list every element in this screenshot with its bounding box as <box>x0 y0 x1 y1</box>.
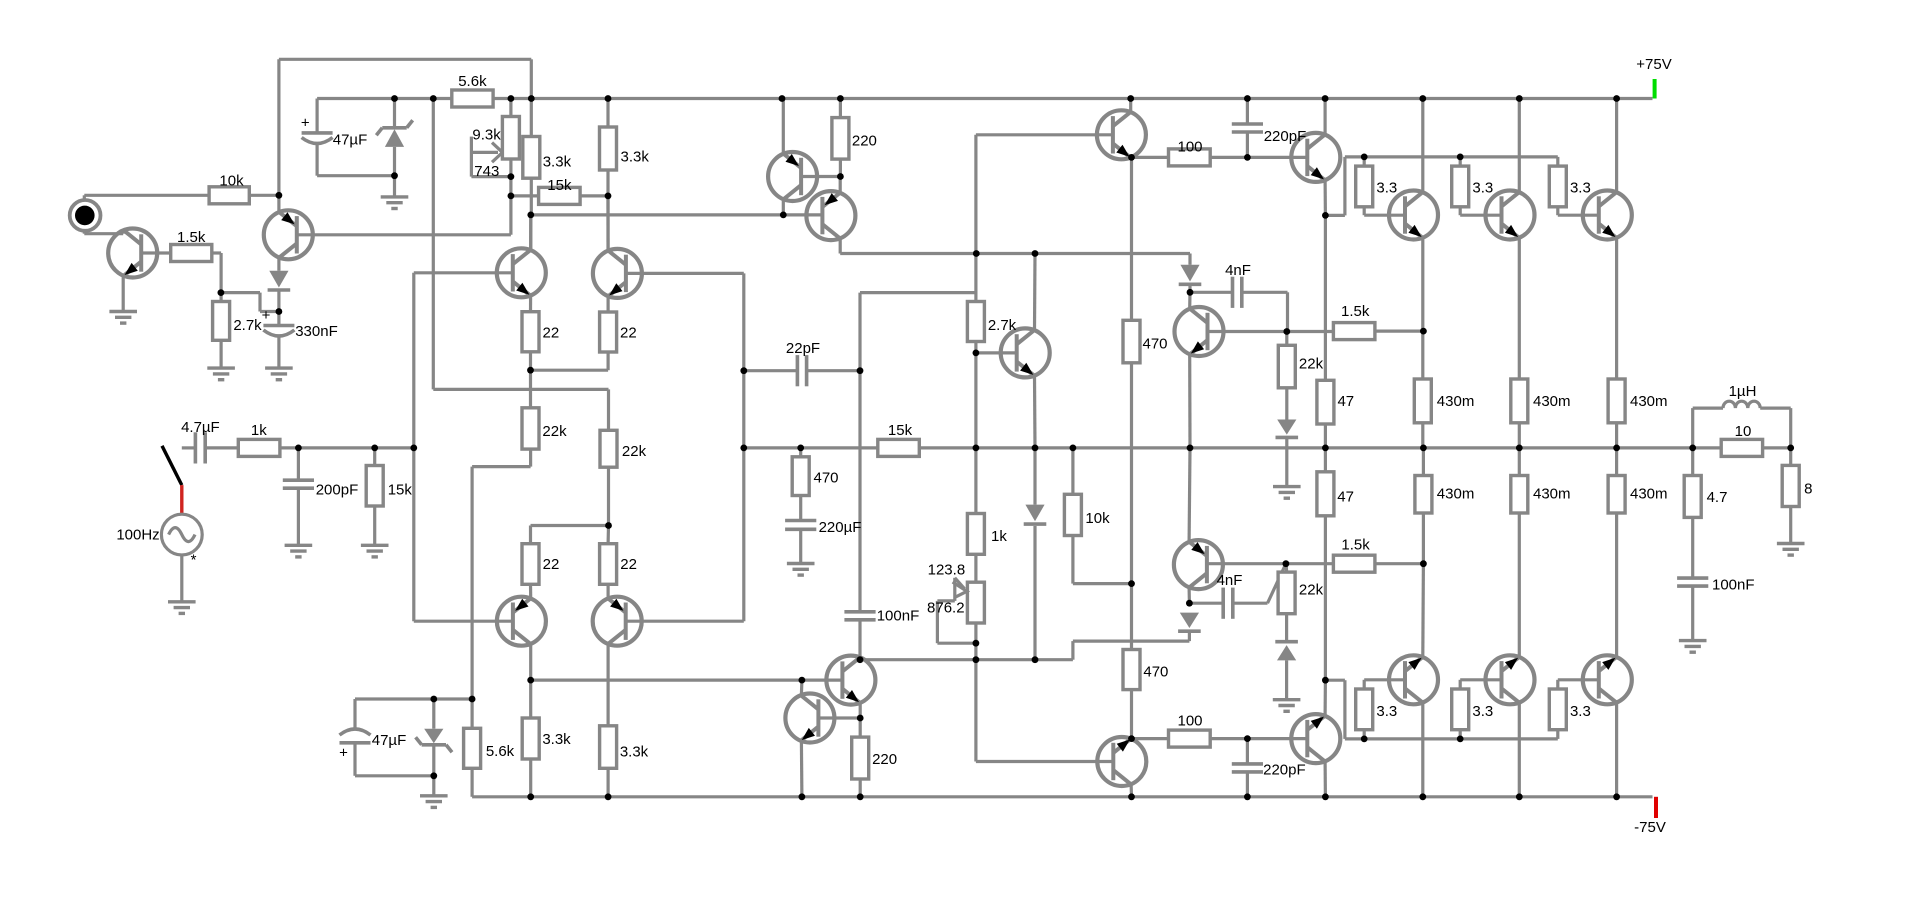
wire 3.3 base resistor 3 leads <box>1556 157 1559 166</box>
resistor 10k <box>209 187 249 204</box>
svg-text:3.3k: 3.3k <box>620 744 649 761</box>
wire 470 rail leads <box>799 448 802 457</box>
svg-text:1.5k: 1.5k <box>177 229 206 246</box>
wire Q7 emitter down <box>1421 238 1424 331</box>
junction at 1519,797 <box>1516 793 1523 800</box>
svg-text:4.7µF: 4.7µF <box>181 419 220 436</box>
wire D2 to Q10 node <box>1188 286 1191 292</box>
wire Q15 collector <box>1033 254 1037 331</box>
resistor 100 bottom <box>1169 730 1211 747</box>
wire Z2 ground stem <box>432 776 435 796</box>
svg-text:47: 47 <box>1337 488 1354 505</box>
wire comp to Q5 base node <box>860 291 976 294</box>
svg-text:4nF: 4nF <box>1225 262 1251 279</box>
wire input riser to Q13 base <box>414 620 513 623</box>
wire Q8 collector <box>529 215 532 250</box>
wire Q3 emitter stub <box>839 177 842 193</box>
junction at 608,98 <box>605 95 612 102</box>
wire +75V rail <box>493 97 1652 100</box>
wire 430m b1 leads <box>1422 448 1425 476</box>
junction at 1247,98 <box>1244 95 1251 102</box>
wire mid rail left <box>744 446 878 449</box>
resistor 430m b1 <box>1415 476 1432 514</box>
ground 330nF <box>265 366 293 369</box>
+75V supply tick <box>1653 79 1657 99</box>
resistor 15k top <box>539 187 581 204</box>
resistor 2.7k VAS <box>967 302 984 342</box>
transistor Q3 pnp <box>806 191 855 240</box>
resistor 22k tail a <box>522 408 539 449</box>
diode D6 <box>1277 645 1296 660</box>
wire pot2 bracket <box>953 578 956 601</box>
junction at 279,195 <box>276 192 283 199</box>
wire 3.3k b1 leads <box>529 680 532 718</box>
resistor 3.3 bottom 1 <box>1356 689 1373 730</box>
wire D3 through rail to ground <box>1285 439 1288 487</box>
svg-text:5.6k: 5.6k <box>458 73 487 90</box>
capacitor 4.7uF <box>194 432 198 463</box>
resistor 5.6k bottom <box>464 728 481 768</box>
wire Q9 collector to rail <box>1615 99 1618 193</box>
junction at 1364,157 <box>1361 154 1368 161</box>
diode D1 <box>269 271 288 288</box>
junction at 531,215 <box>527 212 534 219</box>
junction at 608,196 <box>605 193 612 200</box>
svg-text:100: 100 <box>1177 139 1202 156</box>
wire input riser to Q11 base <box>412 273 415 621</box>
svg-text:470: 470 <box>813 470 838 487</box>
wire 2.7k VAS leads <box>974 254 977 302</box>
resistor 22k tail b <box>600 430 617 467</box>
svg-text:3.3: 3.3 <box>1472 703 1493 720</box>
junction at 1131,98 <box>1127 95 1134 102</box>
ground Z2 <box>420 794 448 797</box>
ground below D6 <box>1273 698 1301 701</box>
wire 220pF leads <box>1246 99 1249 125</box>
junction at 860,718 <box>857 715 864 722</box>
junction at 221,293 <box>218 289 225 296</box>
junction at 1617,98 <box>1613 95 1620 102</box>
wire 220 top leads <box>839 99 842 118</box>
wire input line <box>182 446 196 449</box>
junction at 840,176 <box>837 173 844 180</box>
resistor 220 top <box>832 118 849 160</box>
wire Q1 emitter to ground <box>122 276 125 312</box>
junction at 434,776 <box>430 772 437 779</box>
junction at 1519,98 <box>1516 95 1523 102</box>
wire Q7 collector to rail <box>1421 99 1424 193</box>
resistor 3.3 bottom 2 <box>1452 689 1469 730</box>
wire 3.3 lower resistor 2 leads <box>1459 730 1462 739</box>
resistor 430m 2 <box>1511 379 1528 423</box>
junction at 434,699 <box>430 696 437 703</box>
resistor 470 top <box>1123 320 1140 363</box>
junction at 1460,157 <box>1457 154 1464 161</box>
capacitor 47uF top <box>302 131 333 135</box>
svg-text:10: 10 <box>1735 423 1752 440</box>
resistor 3.3k bottom 2 <box>600 726 617 769</box>
svg-text:1k: 1k <box>251 422 267 439</box>
svg-text:*: * <box>191 552 197 569</box>
diode D3 <box>1277 420 1296 435</box>
junction at 298,448 <box>295 445 302 452</box>
svg-text:330nF: 330nF <box>295 323 338 340</box>
diode D4 <box>1025 505 1044 522</box>
resistor 1.5k lower <box>1333 555 1375 572</box>
wire Q11 collector <box>529 215 532 250</box>
wire 47uF block top <box>317 97 452 100</box>
transistor Q19 output npn lower <box>1583 655 1632 704</box>
junction at 783,215 <box>780 212 787 219</box>
junction at 1423,564 <box>1420 560 1427 567</box>
svg-text:430m: 430m <box>1533 486 1571 503</box>
junction at 860,660 <box>857 656 864 663</box>
junction at 744,371 <box>740 367 747 374</box>
svg-text:220µF: 220µF <box>819 519 862 536</box>
capacitor 100nF zobel <box>1677 576 1708 580</box>
pot wiper arrow <box>471 151 498 154</box>
junction at 1460,739 <box>1457 736 1464 743</box>
wire Q23 base <box>1247 737 1307 740</box>
wire 22k lower leads <box>1285 564 1289 572</box>
svg-text:1.5k: 1.5k <box>1341 537 1370 554</box>
junction at 1423,331 <box>1420 328 1427 335</box>
capacitor 330nF polarized <box>263 324 294 328</box>
wire 1.5k to 2.7k node <box>212 251 221 254</box>
svg-text:1.5k: 1.5k <box>1341 303 1370 320</box>
wire Q22 base riser <box>974 660 977 762</box>
junction at 1073,448 <box>1070 445 1077 452</box>
wire Q6 emitter column <box>1324 215 1327 380</box>
junction at 1035,660 <box>1032 656 1039 663</box>
junction at 1035,254 <box>1032 250 1039 257</box>
capacitor 22pF <box>796 355 800 386</box>
wire Q1 base to 1.5k <box>141 251 171 254</box>
transistor Q15 npn <box>1001 328 1050 377</box>
potentiometer 123.8/876.2 <box>967 582 984 623</box>
resistor 430m b3 <box>1608 476 1625 514</box>
junction at 531,98 <box>528 95 535 102</box>
svg-text:1µH: 1µH <box>1729 383 1757 400</box>
wire 47 lower leads <box>1324 448 1327 472</box>
junction at 1132,584 <box>1128 580 1135 587</box>
wire Q15 base node down <box>974 353 977 514</box>
transistor Q7 output npn <box>1389 191 1438 240</box>
wire Q18 collector to -rail <box>1518 703 1521 797</box>
junction at 1423,448 <box>1420 445 1427 452</box>
junction at 1035,448 <box>1032 445 1039 452</box>
resistor 430m 3 <box>1608 379 1625 423</box>
wire 10k to node A <box>249 194 279 197</box>
svg-text:1k: 1k <box>991 528 1007 545</box>
resistor 3.3k right <box>600 127 617 170</box>
wire Q14 collector <box>606 644 609 726</box>
junction at 1791,448 <box>1787 445 1794 452</box>
wire VAS node to D2 <box>1188 254 1191 265</box>
svg-text:10k: 10k <box>219 173 244 190</box>
junction at 1617,797 <box>1613 793 1620 800</box>
wire top bypass <box>279 58 531 61</box>
svg-text:4.7: 4.7 <box>1707 489 1728 506</box>
wire Q16e jog to lower 3.3 row <box>1325 679 1345 682</box>
capacitor 220pF top <box>1232 122 1263 126</box>
wire 430m b2 leads <box>1518 448 1521 476</box>
resistor 3.3 top 2 <box>1452 166 1469 207</box>
svg-text:470: 470 <box>1142 336 1167 353</box>
svg-text:+: + <box>301 115 310 132</box>
wire 2.7k node jog to 330nF <box>221 291 260 294</box>
wire Q9 collector lead <box>606 196 609 251</box>
wire 22k tail a bottom jog <box>529 449 532 467</box>
svg-text:430m: 430m <box>1437 486 1475 503</box>
svg-text:+75V: +75V <box>1636 56 1671 73</box>
ground zobel <box>1679 639 1707 642</box>
wire Q2 collector to D1 <box>277 258 280 271</box>
svg-text:123.8: 123.8 <box>928 561 966 578</box>
junction at 1325,680 <box>1322 677 1329 684</box>
wire 15k input leads <box>373 448 376 466</box>
capacitor 220pF bottom <box>1232 762 1263 766</box>
ground 220uF <box>787 562 815 565</box>
svg-text:220pF: 220pF <box>1264 128 1307 145</box>
wire D6 to ground <box>1285 660 1288 699</box>
transistor Q18 output npn lower <box>1486 655 1535 704</box>
wire 47uF block bottom <box>317 174 394 177</box>
wire zener Z2 leads <box>432 699 435 729</box>
svg-text:876.2: 876.2 <box>927 599 965 616</box>
wire bottom block lower <box>355 774 434 777</box>
capacitor 200pF <box>283 478 314 482</box>
wire Q11 emitter <box>529 296 532 312</box>
capacitor 100nF comp <box>844 610 875 614</box>
junction at 782,98 <box>779 95 786 102</box>
junction at 976,643 <box>973 640 980 647</box>
resistor 15k input <box>366 466 383 507</box>
wire Q20 emitter to -rail <box>800 741 804 797</box>
wire mid rail right <box>919 446 1790 449</box>
ground 2.7k <box>207 366 235 369</box>
junction at 976,448 <box>973 445 980 452</box>
svg-text:743: 743 <box>474 163 499 180</box>
wire 47uF2 leads <box>353 699 356 729</box>
svg-text:100nF: 100nF <box>877 608 920 625</box>
svg-text:4nF: 4nF <box>1217 572 1243 589</box>
resistor 22 a <box>522 312 539 352</box>
svg-text:470: 470 <box>1143 664 1168 681</box>
wire Q13 collector <box>529 644 532 680</box>
svg-text:-75V: -75V <box>1634 819 1666 836</box>
resistor 3.3k bottom 1 <box>522 718 539 759</box>
svg-text:22k: 22k <box>1299 356 1324 373</box>
wire Q17 collector to -rail <box>1421 703 1424 797</box>
wire 1k to pot2 <box>974 554 977 582</box>
transistor Q13 pnp diff <box>497 597 546 646</box>
wire jack to 10k <box>84 194 209 197</box>
wire 2.7k leads <box>220 293 223 302</box>
resistor 22k upper <box>1278 345 1295 388</box>
junction at 511,196 <box>508 193 515 200</box>
resistor 3.3 top 1 <box>1356 166 1373 207</box>
wire 10k jog to 470 column <box>1073 582 1132 585</box>
junction at 1247,739 <box>1244 735 1251 742</box>
resistor 4.7 zobel <box>1684 476 1701 518</box>
wire pot top lead <box>509 99 512 117</box>
junction at 511,177 <box>508 173 515 180</box>
junction at 1693,448 <box>1689 445 1696 452</box>
junction at 1247,157 <box>1244 154 1251 161</box>
svg-text:3.3: 3.3 <box>1570 180 1591 197</box>
wire 330nF bottom to ground <box>277 336 280 368</box>
junction at 279,312 <box>276 308 283 315</box>
wire Q23 emitter up <box>1323 680 1327 716</box>
junction at 860,371 <box>857 367 864 374</box>
transistor Q1 input <box>108 229 157 278</box>
svg-text:3.3: 3.3 <box>1570 703 1591 720</box>
wire 5.6k bottom leads <box>471 699 474 728</box>
wire Q5 collector to rail <box>1129 99 1132 112</box>
junction at 608,526 <box>605 522 612 529</box>
wire 1.5k to 430m node <box>1375 330 1424 333</box>
svg-text:47µF: 47µF <box>333 132 368 149</box>
junction at 1190,292 <box>1187 289 1194 296</box>
svg-text:15k: 15k <box>888 422 913 439</box>
junction at 976,254 <box>973 250 980 257</box>
wire 3.3 base resistor 1 leads <box>1363 157 1366 166</box>
wire pot2 bottom <box>974 623 977 643</box>
svg-text:5.6k: 5.6k <box>486 743 515 760</box>
wire Q16 base <box>1207 562 1334 565</box>
wire Q14 emitter <box>606 584 609 598</box>
junction at 976,660 <box>973 656 980 663</box>
wire Q21 emitter stub <box>859 703 862 718</box>
resistor 100 top <box>1169 149 1211 166</box>
junction at 802,680 <box>799 677 806 684</box>
wire Q4 emitter to rail <box>782 99 785 154</box>
wire 470 mid column <box>1130 157 1133 320</box>
svg-text:430m: 430m <box>1437 393 1475 410</box>
wire 8 leads <box>1789 448 1792 466</box>
resistor 22 b <box>600 312 617 352</box>
svg-text:9.3k: 9.3k <box>472 126 501 143</box>
junction at 1189,603 <box>1186 600 1193 607</box>
resistor 47 top <box>1317 380 1334 424</box>
svg-text:3.3k: 3.3k <box>543 154 572 171</box>
wire diff tail join <box>531 369 609 372</box>
svg-text:430m: 430m <box>1630 486 1668 503</box>
wire Q14 base <box>626 620 744 623</box>
resistor 5.6k <box>452 90 493 107</box>
junction at 530,370 <box>527 367 534 374</box>
wire Q2 base <box>297 233 511 236</box>
junction at 1325,215 <box>1322 212 1329 219</box>
wire Q8 emitter down <box>1518 238 1521 379</box>
wire 100nF bottom <box>858 620 861 660</box>
wire zener ground stem <box>393 176 396 197</box>
junction at 433,98 <box>430 95 437 102</box>
resistor 22k lower <box>1278 572 1295 614</box>
svg-text:220pF: 220pF <box>1263 762 1306 779</box>
capacitor 4nF bottom <box>1221 588 1225 619</box>
wire Q4 collector down <box>782 199 785 215</box>
junction at 801,448 <box>797 445 804 452</box>
ground 200pF <box>285 544 313 547</box>
wire 470 lower leads <box>1130 584 1133 650</box>
wire zener Z1 leads <box>393 99 396 128</box>
ground load <box>1777 542 1805 545</box>
resistor 8 load <box>1782 465 1799 506</box>
wire 3.3 lower resistor 3 leads <box>1556 730 1559 739</box>
wire 15k leads <box>511 194 539 197</box>
junction at 608,797 <box>605 793 612 800</box>
wire D1 to 330nF node <box>277 291 280 326</box>
-75V supply tick <box>1654 797 1658 818</box>
svg-text:15k: 15k <box>388 482 413 499</box>
junction at 1325,797 <box>1322 793 1329 800</box>
junction at 1364,739 <box>1361 736 1368 743</box>
wire Q2 emitter <box>277 195 280 212</box>
svg-text:47µF: 47µF <box>372 732 407 749</box>
wire Q4 base junction <box>801 175 840 178</box>
svg-text:+: + <box>262 307 271 324</box>
resistor 470 rail <box>792 457 809 496</box>
junction at 1423,98 <box>1419 95 1426 102</box>
resistor 3.3k left <box>523 137 540 179</box>
wire 1.5k lower right <box>1375 562 1424 565</box>
wire 4.7 leads <box>1691 448 1694 476</box>
resistor 430m 1 <box>1414 379 1431 423</box>
resistor 430m b2 <box>1511 476 1528 514</box>
wire Q6 emitter down <box>1323 180 1327 215</box>
svg-text:430m: 430m <box>1630 393 1668 410</box>
svg-text:22k: 22k <box>1299 582 1324 599</box>
svg-text:+: + <box>339 744 348 761</box>
svg-text:2.7k: 2.7k <box>988 317 1017 334</box>
diode D5 <box>1180 613 1199 628</box>
wire Q6 emitter jog to 3.3 row <box>1325 214 1345 217</box>
resistor 1.5k upper <box>1333 323 1375 340</box>
resistor 220 bottom <box>852 737 869 779</box>
switch SW1 <box>162 446 182 485</box>
transistor Q12 npn diff <box>593 249 642 298</box>
junction at 511,98 <box>508 95 515 102</box>
wire 3.3k b2 leads <box>606 724 609 727</box>
wire -75V rail <box>472 795 1652 798</box>
wire 220 bottom leads <box>859 718 862 737</box>
wire 3.3 lower resistor 1 leads <box>1363 730 1366 739</box>
wire mirror node <box>531 213 822 216</box>
svg-text:22: 22 <box>620 324 637 341</box>
wire 100 to 220pF node <box>1210 156 1247 159</box>
junction at 472,699 <box>469 696 476 703</box>
svg-text:100Hz: 100Hz <box>116 527 159 544</box>
transistor Q11 npn diff <box>497 248 546 297</box>
wire Q20 collector <box>800 680 804 695</box>
pot2 wiper arrow <box>955 578 965 589</box>
wire Q19 collector to -rail <box>1615 703 1618 797</box>
wire 3.3 base resistor 2 leads <box>1459 157 1462 166</box>
svg-text:3.3: 3.3 <box>1472 180 1493 197</box>
wire bottom block top <box>355 697 472 700</box>
resistor 1k input <box>238 439 280 456</box>
transistor Q17 output npn lower <box>1389 655 1438 704</box>
svg-text:3.3: 3.3 <box>1376 180 1397 197</box>
wire Q10 emitter to mid rail <box>1188 354 1192 448</box>
transistor Q23 npn lower driver <box>1291 714 1340 763</box>
transistor Q6 npn driver <box>1291 133 1340 182</box>
wire Q13 emitter <box>529 584 532 598</box>
wire Q10 collector <box>1188 292 1192 308</box>
wire 22pF leads <box>744 369 798 372</box>
